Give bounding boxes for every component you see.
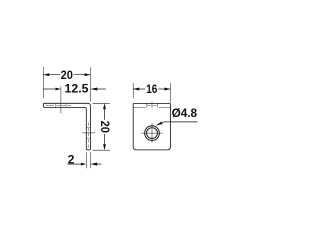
svg-text:Ø4.8: Ø4.8 [172,106,198,120]
svg-text:16: 16 [146,82,157,96]
svg-text:2: 2 [68,153,75,167]
svg-text:12.5: 12.5 [65,82,89,96]
svg-text:20: 20 [98,121,112,134]
svg-text:20: 20 [61,68,74,82]
